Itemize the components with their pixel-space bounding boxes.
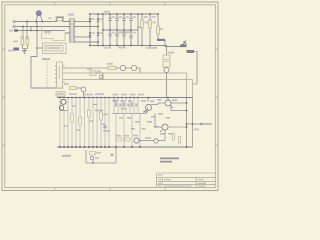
resistor R4 — [108, 67, 116, 70]
wire stubs lower-left texture — [60, 105, 105, 131]
wire feedback 3 turn — [186, 80, 193, 98]
resistor R12 — [125, 138, 131, 141]
labels lower mid texts — [113, 94, 145, 110]
wire R vertical 1 — [141, 14, 143, 46]
resistor R5 — [71, 114, 74, 122]
resistor R1 — [141, 20, 144, 28]
diode D2 — [97, 19, 100, 23]
junction dot sub-circuit — [115, 146, 117, 148]
labels bottom comps — [116, 135, 151, 139]
wire mains drop to lower left — [31, 22, 63, 89]
opto U1 body — [57, 62, 63, 88]
wire Q6 leads — [158, 98, 187, 105]
transformer T1 primary — [69, 18, 71, 43]
resistor R2 — [149, 20, 152, 28]
note text block — [160, 158, 179, 163]
resistor R10 — [178, 137, 181, 144]
output jack J2 — [187, 50, 195, 53]
switch SW1 body — [42, 16, 69, 40]
label T1 — [68, 14, 74, 16]
capacitor C10 — [111, 154, 114, 156]
transistor Q4b — [59, 106, 64, 111]
capacitor C7 — [122, 30, 125, 46]
wire lower top rail — [57, 97, 193, 99]
transistor Q1 — [164, 67, 169, 72]
wire lower bottom rail — [57, 146, 193, 148]
labels cap values — [104, 11, 136, 49]
earth ground blob — [14, 48, 20, 51]
transistor Q7 — [162, 124, 168, 130]
label box enclosure — [43, 43, 67, 54]
sheet inner border — [5, 5, 216, 188]
output meter M1 — [182, 41, 187, 47]
wire mid rail — [103, 29, 138, 31]
capacitor CX1 — [21, 39, 24, 46]
wire sub loop — [86, 147, 116, 163]
net label box HS1 — [56, 92, 65, 96]
connector J1 pin circles — [13, 21, 15, 28]
wire Q5 leads — [146, 98, 158, 114]
wire Q3 down to feedback — [137, 68, 140, 73]
zener ZD1 — [157, 39, 165, 41]
opto U1 inner text — [59, 66, 61, 79]
wire right cap vertical — [137, 14, 139, 46]
wire feedback 2 — [63, 73, 187, 98]
wire bottom run — [139, 140, 154, 142]
resistor R6 — [79, 117, 82, 125]
resistor R9 — [172, 134, 175, 141]
scattered value labels lower box — [113, 99, 177, 135]
wire output stub — [187, 123, 201, 125]
transistor Q6 — [165, 100, 171, 106]
thermistor RT1 — [90, 152, 96, 155]
wire lower verticals group A — [60, 98, 109, 148]
small comps row — [115, 103, 137, 107]
diode D3 — [89, 33, 92, 37]
output terminal circle — [200, 123, 202, 125]
transistor Q10 — [154, 139, 158, 143]
capacitor C9 — [103, 126, 106, 128]
transformer T1 core — [71, 17, 73, 44]
junction dot — [36, 26, 38, 28]
resistor R3 — [157, 26, 160, 34]
fuse F1 label — [44, 31, 51, 33]
transformer winding ticks — [69, 20, 76, 40]
labels D1-D4 — [91, 18, 103, 34]
wire L line — [15, 21, 57, 23]
label R4 — [107, 63, 113, 65]
junction dots AC — [22, 21, 43, 32]
junction dots bottom rail lower — [59, 146, 188, 148]
capacitor C6 — [115, 30, 118, 46]
ground — [22, 51, 27, 54]
wire lower-left entry components — [70, 87, 86, 98]
border zone ticks — [2, 2, 218, 191]
title block texts — [158, 174, 206, 186]
bottom comps row: resistor R11 — [117, 138, 123, 141]
wire Q2 to Q3 — [126, 67, 132, 69]
wire jack down — [192, 52, 197, 85]
transformer T1 secondary — [73, 18, 75, 43]
opto U1 pin stubs — [55, 66, 65, 82]
resistor R7 — [88, 110, 91, 117]
transistor Q3 — [131, 65, 136, 70]
wire zener to output — [165, 40, 180, 47]
resistor R8 — [100, 112, 103, 120]
capacitor C4 — [129, 14, 132, 30]
capacitor C5 — [108, 30, 111, 46]
wire right rails lower — [171, 98, 193, 148]
label SGND — [62, 155, 71, 157]
wire bottom run 2 — [158, 140, 165, 142]
capacitor C3 — [122, 14, 125, 30]
wire 0V bottom rail — [90, 45, 167, 47]
label TR text — [8, 50, 14, 52]
wire secondary taps — [65, 22, 98, 43]
labels lower-left cluster — [69, 93, 110, 132]
wire +V top rail — [90, 13, 158, 15]
label PE text — [9, 30, 13, 32]
wire bridge right rail — [97, 14, 99, 46]
labels R values — [137, 16, 163, 49]
wire lower mid rail — [112, 113, 146, 115]
wire lower verticals group B — [114, 98, 140, 148]
wire R vertical 3 — [157, 14, 159, 40]
capacitor C8 — [129, 30, 132, 46]
label NE555 — [42, 58, 50, 60]
junction dots lower right — [186, 102, 194, 128]
wire opto out 1 — [63, 67, 108, 69]
capacitor CX2 — [26, 39, 29, 46]
wire R vertical 2 — [149, 14, 151, 46]
junction dots top rail lower — [59, 97, 169, 99]
diode D1 — [89, 19, 92, 23]
short diagonal strokes (emitter arrows) — [144, 106, 174, 133]
transistor Q5 — [146, 105, 152, 111]
label OUTPUT — [202, 123, 212, 125]
junction dots right — [141, 13, 159, 46]
label U2 — [168, 52, 174, 54]
junction dots bridge — [89, 13, 99, 46]
wire N line — [15, 26, 70, 28]
wire cap drops — [22, 22, 31, 51]
wire E line — [15, 30, 65, 32]
wire mid-left vertical — [102, 14, 104, 46]
wire Q7 leads — [155, 114, 187, 141]
transistor Q2 — [120, 65, 125, 70]
wire R4 to Q2 — [116, 67, 120, 69]
transistor Q9 — [90, 156, 94, 160]
capacitor C2 — [115, 14, 118, 30]
wire feedback 1 — [63, 79, 186, 81]
labels mid texts — [87, 68, 101, 72]
junction dot sub bottom — [92, 162, 94, 164]
label CX values — [13, 41, 18, 43]
wire regulator leads — [166, 46, 168, 98]
small parts under opto — [90, 71, 103, 80]
earth terminal blob — [14, 29, 18, 31]
meter body blob — [180, 45, 187, 48]
regulator U2 — [163, 55, 170, 60]
labels sub texts — [95, 152, 101, 159]
wire box2 stub — [37, 47, 43, 49]
capacitor C1 — [108, 14, 111, 30]
transistor Q8 — [134, 138, 139, 143]
sheet outer border — [2, 2, 218, 191]
label lower-left — [64, 83, 69, 85]
dashed shield line — [46, 62, 48, 88]
transistor Q4 — [61, 99, 66, 104]
wire bridge left rail — [89, 14, 91, 46]
junction dots filter — [102, 13, 139, 46]
neon lamp NE1 — [36, 10, 52, 23]
diode D4 — [97, 33, 100, 37]
